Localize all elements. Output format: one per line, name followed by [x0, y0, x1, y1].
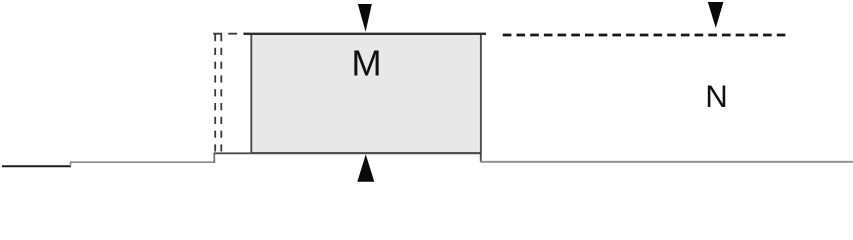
marker arrow below ledge under block M	[357, 154, 374, 181]
ground step at x=70	[71, 162, 215, 166]
ground line right (to image edge)	[480, 161, 853, 163]
block M body	[251, 34, 481, 153]
dashed previous-position left edge (inner)	[220, 34, 222, 152]
ground step up at x=214	[213, 153, 215, 164]
block M top edge (darker, slight overhang)	[244, 33, 487, 35]
marker arrow above dashed level line	[708, 2, 724, 28]
svg-text:N: N	[705, 79, 728, 114]
step down at right of block	[480, 153, 482, 162]
svg-text:M: M	[351, 43, 381, 84]
dashed previous-position left edge (outer)	[214, 34, 216, 152]
dashed level line N	[503, 34, 786, 37]
ground line far left (lowest level)	[2, 165, 71, 167]
dashed top cap connecting to block M	[213, 33, 250, 35]
marker arrow above block M	[358, 4, 372, 32]
ledge top line under block M	[214, 152, 481, 154]
